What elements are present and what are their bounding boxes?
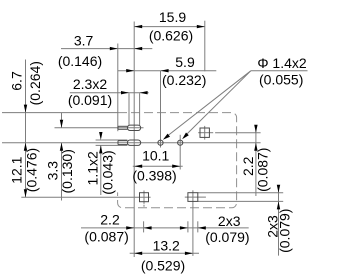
- square hole 2: [188, 193, 198, 202]
- pad 1 stadium: [127, 125, 140, 130]
- 2.2 right arrows: [254, 125, 257, 133]
- svg-text:(0.091): (0.091): [68, 92, 112, 108]
- svg-text:10.1: 10.1: [142, 148, 169, 164]
- 3.3 arrows: [60, 120, 63, 128]
- svg-text:(0.476): (0.476): [24, 148, 40, 192]
- dim 2x3 right: [278, 185, 280, 256]
- sq3 center vertical: [143, 191, 145, 204]
- pad 2 tail: [118, 140, 127, 142]
- row line hole1 center right extension: [198, 132, 213, 134]
- svg-text:13.2: 13.2: [153, 237, 180, 253]
- svg-text:3.7: 3.7: [74, 33, 94, 49]
- sq2 edge rows extended right (2x3 refs): [198, 192, 283, 194]
- svg-text:1.1x2: 1.1x2: [84, 151, 100, 185]
- dim 2.2 / 2x3 bottom: [81, 227, 249, 229]
- row line bottom squares center: [21, 196, 150, 198]
- 6.7 arrows: [24, 105, 27, 113]
- svg-text:12.1: 12.1: [9, 156, 25, 183]
- arrows (black): [24, 25, 280, 255]
- 13.2 inside arrows: [134, 252, 142, 255]
- dim 10.1: [133, 165, 183, 167]
- leader lines: [168, 71, 251, 136]
- 10.1 inside arrows: [134, 165, 142, 168]
- svg-text:(0.529): (0.529): [141, 258, 185, 274]
- svg-text:2x3: 2x3: [218, 213, 241, 229]
- svg-text:(0.232): (0.232): [162, 72, 206, 88]
- dim 2.3x2: [70, 92, 149, 94]
- svg-text:(0.398): (0.398): [132, 168, 176, 184]
- 15.9 right ext (hole1 column): [204, 21, 206, 72]
- dia label underline: [251, 70, 308, 72]
- svg-text:(0.146): (0.146): [58, 53, 102, 69]
- svg-text:(0.087): (0.087): [84, 229, 128, 245]
- dim 3.7: [61, 48, 152, 50]
- circle2 vertical / 10.1 ext: [179, 135, 181, 170]
- svg-text:Φ 1.4x2: Φ 1.4x2: [257, 55, 307, 71]
- row line pad1 center: [55, 127, 144, 129]
- svg-text:15.9: 15.9: [159, 9, 186, 25]
- 1.1x2 arrows: [99, 132, 102, 140]
- features: [118, 125, 209, 202]
- extension / dimension lines gray: [2, 21, 308, 257]
- 5.9 outside arrows: [126, 69, 134, 72]
- 2x3 bottom arrows: [180, 226, 188, 229]
- 2.2 bottom arrows: [126, 226, 134, 229]
- 3.7 outside arrows: [110, 47, 118, 50]
- svg-text:(0.626): (0.626): [149, 28, 193, 44]
- 2x3 right arrows: [277, 185, 280, 193]
- svg-text:(0.079): (0.079): [205, 229, 249, 245]
- dim 6.7 / 12.1: [25, 60, 27, 198]
- square hole 1: [200, 128, 209, 137]
- 5.9 right ext / circle1 vertical: [160, 71, 162, 148]
- pad 2 stadium: [127, 140, 140, 145]
- svg-text:(0.043): (0.043): [100, 150, 116, 194]
- 2.3x2 outside arrows: [121, 91, 129, 94]
- dim 3.3: [61, 113, 63, 128]
- circle 1: [158, 140, 163, 145]
- 15.9 inside arrows: [134, 25, 142, 28]
- svg-text:6.7: 6.7: [8, 71, 24, 91]
- sq1 vertical: [204, 126, 206, 140]
- svg-text:2.2: 2.2: [100, 212, 120, 228]
- circle 2: [178, 140, 183, 145]
- dim 15.9: [134, 26, 205, 28]
- leader arrowheads: [163, 134, 170, 140]
- row line circles / pad2 center: [2, 142, 261, 144]
- svg-text:(0.055): (0.055): [259, 71, 303, 87]
- dim 2.2 right: [255, 126, 257, 196]
- row line body top extended left: [2, 112, 118, 114]
- svg-text:(0.264): (0.264): [27, 61, 43, 105]
- bottom dim ext stubs: [143, 221, 145, 232]
- svg-text:(0.130): (0.130): [59, 149, 75, 193]
- svg-text:2.2: 2.2: [240, 156, 256, 176]
- dim 1.1x2: [100, 145, 102, 195]
- dim 13.2: [130, 252, 199, 254]
- svg-text:(0.079): (0.079): [276, 209, 292, 253]
- sq2 center column down to 13.2: [192, 190, 194, 256]
- body outline dashed: [118, 113, 237, 208]
- pad 1 tail: [118, 125, 127, 127]
- svg-text:(0.087): (0.087): [255, 148, 271, 192]
- 12.1 bottom arrow: [24, 189, 27, 197]
- dim 5.9: [118, 70, 217, 72]
- 2.3x2 ext stubs: [128, 93, 130, 125]
- svg-text:5.9: 5.9: [175, 54, 195, 70]
- lead tip column / body left edge ext: [117, 44, 119, 132]
- main column through pad centers: [133, 22, 135, 258]
- pad2 edge rows extended left (1.1x2 refs): [96, 139, 128, 141]
- svg-text:2.3x2: 2.3x2: [73, 76, 107, 92]
- square hole 3: [140, 193, 149, 202]
